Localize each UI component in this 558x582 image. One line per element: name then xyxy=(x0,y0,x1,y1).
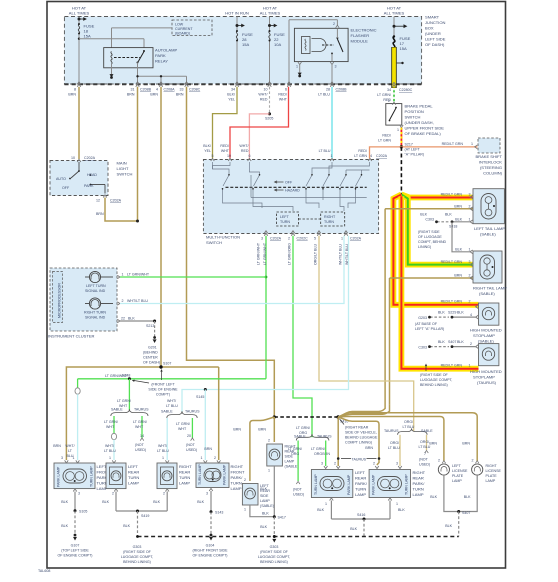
svg-text:AUTO: AUTO xyxy=(56,177,66,181)
svg-text:2: 2 xyxy=(214,456,216,460)
fuse 18 symbol xyxy=(78,24,79,34)
svg-text:BLK: BLK xyxy=(464,495,471,499)
multi-function switch box xyxy=(203,160,378,246)
svg-text:LT BLU: LT BLU xyxy=(318,93,330,97)
svg-text:(NOT: (NOT xyxy=(186,443,196,447)
fuse 22 tap arrow xyxy=(268,24,276,26)
svg-text:PARK: PARK xyxy=(84,184,94,188)
svg-text:RIGHT TURN: RIGHT TURN xyxy=(84,311,106,315)
svg-text:CURRENT: CURRENT xyxy=(175,27,193,31)
svg-text:2: 2 xyxy=(122,299,124,303)
splice S107 xyxy=(159,365,162,368)
svg-text:POSITION: POSITION xyxy=(405,109,424,114)
svg-text:S217: S217 xyxy=(405,143,413,147)
svg-text:PARK/: PARK/ xyxy=(231,475,244,480)
taurus arm green not used xyxy=(141,416,143,438)
sable arm green to connector to cyan to left rear turn lamp xyxy=(113,416,115,434)
svg-text:(AT LEFT: (AT LEFT xyxy=(405,148,421,152)
wire BLK S418 to right tail pin 1 xyxy=(452,222,470,252)
svg-text:3: 3 xyxy=(335,65,337,69)
svg-text:BRN: BRN xyxy=(127,93,135,97)
svg-text:1: 1 xyxy=(268,469,270,473)
svg-text:AUTOLAMP: AUTOLAMP xyxy=(155,48,177,53)
svg-text:LICENSE: LICENSE xyxy=(452,469,468,473)
svg-text:3: 3 xyxy=(78,492,80,496)
svg-text:RED/LT GRN: RED/LT GRN xyxy=(441,364,463,368)
C taurus arm to right rear park/turn pin 3 xyxy=(399,435,401,466)
svg-text:WHT/LT BLU: WHT/LT BLU xyxy=(345,244,349,265)
svg-text:BRN: BRN xyxy=(462,442,470,446)
fuse 22 symbol xyxy=(269,31,270,41)
svg-text:BRN: BRN xyxy=(150,93,158,97)
wire BLK from IC to G201 xyxy=(120,320,155,322)
svg-text:C208A: C208A xyxy=(164,88,176,92)
svg-text:(SABLE): (SABLE) xyxy=(260,504,274,508)
svg-text:BEHIND LINING): BEHIND LINING) xyxy=(420,383,448,387)
svg-text:COMPT): COMPT) xyxy=(156,393,170,397)
svg-text:LT GRN/: LT GRN/ xyxy=(104,420,118,424)
svg-text:STOPLAMP: STOPLAMP xyxy=(473,333,495,338)
wire fuse 17 thick yellow xyxy=(391,47,396,88)
right rear side lamp (sable) xyxy=(267,444,299,469)
low current board (dashed box) xyxy=(172,20,212,36)
MFS internal wiring xyxy=(213,162,370,211)
svg-text:WHT/: WHT/ xyxy=(65,444,74,448)
svg-text:3: 3 xyxy=(469,260,471,264)
svg-text:1: 1 xyxy=(296,65,298,69)
wire RED/LT GRN to high mounted stoplamp sable xyxy=(393,195,478,305)
svg-text:MULTI-FUNCTION: MULTI-FUNCTION xyxy=(206,235,240,240)
svg-text:LT BLU: LT BLU xyxy=(388,446,400,450)
svg-text:LT GRN/: LT GRN/ xyxy=(288,447,302,451)
svg-text:BLK: BLK xyxy=(260,525,267,529)
svg-text:RIGHT: RIGHT xyxy=(324,215,336,219)
svg-text:SIDE OF VEHICLE,: SIDE OF VEHICLE, xyxy=(345,431,377,435)
svg-text:PARK/: PARK/ xyxy=(413,481,426,486)
svg-text:LIGHT: LIGHT xyxy=(117,166,129,171)
svg-text:3: 3 xyxy=(469,193,471,197)
svg-text:3: 3 xyxy=(206,492,208,496)
svg-text:USED): USED) xyxy=(419,463,430,467)
high mounted stoplamp (sable) xyxy=(470,303,502,344)
svg-text:(TAURUS): (TAURUS) xyxy=(477,380,497,385)
svg-text:22: 22 xyxy=(121,317,125,321)
svg-text:(NOT: (NOT xyxy=(135,443,145,447)
svg-text:15A: 15A xyxy=(242,42,250,47)
svg-text:BLK: BLK xyxy=(262,512,269,516)
splice S410 xyxy=(336,415,340,419)
svg-text:BLK: BLK xyxy=(128,317,135,321)
svg-text:BRN: BRN xyxy=(68,93,76,97)
left turn dashed box xyxy=(277,212,299,226)
svg-text:1: 1 xyxy=(244,508,246,512)
wire BRN to right license lamp xyxy=(338,413,477,461)
svg-text:BRN: BRN xyxy=(176,93,184,97)
svg-text:ORG/LT BLU: ORG/LT BLU xyxy=(314,244,318,265)
wire RED/LT GRN to left tail lamp pin 3 xyxy=(401,195,472,198)
svg-text:LAMP: LAMP xyxy=(260,499,270,503)
BRN bus right branch down to right front lamp xyxy=(218,367,220,460)
svg-text:(AT BASE OF: (AT BASE OF xyxy=(415,322,438,326)
svg-text:C303: C303 xyxy=(425,218,434,222)
svg-text:(NOT: (NOT xyxy=(419,458,429,462)
svg-text:RIGHT: RIGHT xyxy=(413,470,426,475)
svg-text:LAMP: LAMP xyxy=(179,481,190,486)
svg-text:MICROPROCESSOR: MICROPROCESSOR xyxy=(58,283,62,318)
svg-text:(UNDER: (UNDER xyxy=(425,31,441,36)
svg-text:SABLE: SABLE xyxy=(161,410,173,414)
svg-text:3: 3 xyxy=(61,456,63,460)
svg-text:2: 2 xyxy=(373,462,375,466)
svg-text:OF DASH): OF DASH) xyxy=(425,42,445,47)
svg-text:BLK: BLK xyxy=(61,500,68,504)
svg-text:ALL TIMES: ALL TIMES xyxy=(260,11,281,16)
svg-text:S407: S407 xyxy=(462,511,470,515)
svg-text:HAZARD: HAZARD xyxy=(285,189,300,193)
svg-text:WHT/: WHT/ xyxy=(258,93,267,97)
svg-text:(RIGHT FRONT SIDE: (RIGHT FRONT SIDE xyxy=(192,549,228,553)
svg-text:33: 33 xyxy=(180,88,184,92)
green LT GRN/WHT bus xyxy=(78,378,266,380)
svg-text:LAMP: LAMP xyxy=(486,479,496,483)
svg-text:1: 1 xyxy=(325,502,327,506)
svg-text:2: 2 xyxy=(469,274,471,278)
svg-text:BLK: BLK xyxy=(438,311,445,315)
svg-text:MODULE: MODULE xyxy=(351,39,369,44)
svg-text:COMPT, BEHIND: COMPT, BEHIND xyxy=(418,240,447,244)
svg-text:BRAKE SHIFT: BRAKE SHIFT xyxy=(475,154,502,159)
svg-text:YEL: YEL xyxy=(204,149,211,153)
svg-text:C202A: C202A xyxy=(84,156,96,160)
node fuse18 to relay xyxy=(78,38,80,40)
svg-text:RED/: RED/ xyxy=(278,93,287,97)
svg-text:BLK: BLK xyxy=(455,218,462,222)
svg-text:BRN: BRN xyxy=(454,205,462,209)
wire B LT GRN/ORG: MFS pin 2 down xyxy=(293,236,312,437)
wire BRN to left license lamp xyxy=(338,417,444,462)
svg-text:BEHIND LUGGAGE: BEHIND LUGGAGE xyxy=(345,436,378,440)
left rear turn ground xyxy=(115,492,117,512)
node side lamp tap xyxy=(273,415,276,418)
svg-text:LEFT: LEFT xyxy=(280,215,290,219)
svg-text:SABLE: SABLE xyxy=(294,435,306,439)
svg-text:BRN: BRN xyxy=(204,447,212,451)
wire BRN to right tail lamp pin 2 xyxy=(390,277,474,279)
svg-text:(STEERING: (STEERING xyxy=(480,165,502,170)
svg-text:2: 2 xyxy=(472,459,474,463)
svg-text:TURN: TURN xyxy=(231,481,242,486)
right tail lamp pin chevrons xyxy=(470,250,473,280)
svg-text:BLK: BLK xyxy=(420,213,427,217)
svg-text:WHT/: WHT/ xyxy=(105,444,114,448)
flasher coil box xyxy=(302,37,311,54)
svg-text:2: 2 xyxy=(469,300,471,304)
svg-text:C202C: C202C xyxy=(297,237,309,241)
BRN park bus horizontal xyxy=(66,367,218,460)
svg-text:BRN: BRN xyxy=(454,274,462,278)
svg-text:USED): USED) xyxy=(293,493,304,497)
svg-text:G104: G104 xyxy=(206,544,215,548)
svg-text:LEFT: LEFT xyxy=(452,464,462,468)
autolamp park relay xyxy=(104,48,153,68)
svg-text:1: 1 xyxy=(122,273,124,277)
svg-text:(RIGHT SIDE OF: (RIGHT SIDE OF xyxy=(260,550,288,554)
svg-text:WHT: WHT xyxy=(279,98,288,102)
svg-text:PARK LAMP: PARK LAMP xyxy=(347,474,351,495)
fuse 17 column xyxy=(393,17,395,37)
svg-text:UPPER FRONT SIDE: UPPER FRONT SIDE xyxy=(405,126,445,131)
svg-text:ELECTRONIC: ELECTRONIC xyxy=(351,28,377,33)
flasher switch blade xyxy=(337,39,343,52)
ground G303 (rear) xyxy=(273,535,276,538)
svg-text:SWITCH: SWITCH xyxy=(117,172,133,177)
right turn signal indicator xyxy=(84,298,113,320)
wire BRN S410 to right rear park lamp pin 2 xyxy=(338,417,379,465)
svg-text:LEFT "A" PILLAR): LEFT "A" PILLAR) xyxy=(415,327,444,331)
svg-text:BRN: BRN xyxy=(96,212,104,216)
B sable arm not used xyxy=(297,441,299,482)
fuse 18 column wire xyxy=(78,17,80,85)
left front park/turn lamp xyxy=(54,463,111,491)
svg-text:BEHIND LINING): BEHIND LINING) xyxy=(260,560,288,564)
svg-text:2: 2 xyxy=(333,22,335,26)
IC pin chevrons xyxy=(117,275,120,323)
svg-text:(RIGHT REAR: (RIGHT REAR xyxy=(345,426,369,430)
svg-text:1: 1 xyxy=(201,456,203,460)
svg-text:LT GRN/WHT: LT GRN/WHT xyxy=(257,242,261,265)
svg-text:BEHIND LINING): BEHIND LINING) xyxy=(123,560,151,564)
relay switch blade xyxy=(138,52,144,63)
svg-text:LUGGAGE COMPT,: LUGGAGE COMPT, xyxy=(258,555,291,559)
svg-text:TAL608: TAL608 xyxy=(38,569,50,573)
instrument cluster box xyxy=(48,268,117,339)
svg-text:LT BLU: LT BLU xyxy=(403,425,415,429)
svg-text:10: 10 xyxy=(71,156,75,160)
svg-text:1: 1 xyxy=(469,218,471,222)
svg-text:1: 1 xyxy=(162,456,164,460)
svg-text:5: 5 xyxy=(212,154,214,158)
svg-text:BOX: BOX xyxy=(425,26,434,31)
svg-text:BLK: BLK xyxy=(123,524,130,528)
fuse 17 symbol xyxy=(393,37,395,48)
svg-text:S418: S418 xyxy=(449,225,457,229)
left license plate lamp xyxy=(438,464,468,483)
wire WHT/RED dashed to S205 xyxy=(269,87,271,114)
svg-text:(NOT: (NOT xyxy=(293,488,303,492)
svg-text:(SABLE): (SABLE) xyxy=(285,465,299,469)
wire BRN to left tail lamp pin 2 xyxy=(385,208,473,210)
svg-text:1: 1 xyxy=(109,456,111,460)
svg-text:C208B: C208B xyxy=(140,88,152,92)
svg-text:12: 12 xyxy=(96,199,100,203)
svg-text:4: 4 xyxy=(470,313,472,317)
svg-text:BLK: BLK xyxy=(197,500,204,504)
relay output to pins 31/4/33 xyxy=(138,63,187,85)
svg-text:WHT/LT BLU: WHT/LT BLU xyxy=(339,244,343,265)
main light switch internals xyxy=(71,162,105,194)
svg-text:BLK: BLK xyxy=(398,508,405,512)
splice S418 xyxy=(451,220,454,223)
main light switch pin 12 xyxy=(103,195,107,198)
svg-text:WHT: WHT xyxy=(178,427,187,431)
svg-text:BLK: BLK xyxy=(350,527,357,531)
svg-text:RED/: RED/ xyxy=(358,149,367,153)
svg-text:OF BRAKE PEDAL): OF BRAKE PEDAL) xyxy=(405,131,442,136)
connector row pin chevrons xyxy=(77,82,396,88)
svg-text:5: 5 xyxy=(314,237,316,241)
svg-text:G201: G201 xyxy=(148,346,157,350)
svg-text:OFF: OFF xyxy=(62,186,70,190)
svg-text:LINING): LINING) xyxy=(418,245,431,249)
SJB connector row (dashed) xyxy=(64,83,421,85)
MFS bottom pin chevrons xyxy=(264,231,348,236)
dashed link between turn boxes xyxy=(299,218,321,220)
svg-text:LEFT SIDE: LEFT SIDE xyxy=(425,37,446,42)
dashed link side lamp node to S410 xyxy=(274,416,338,418)
svg-text:(FRONT LEFT: (FRONT LEFT xyxy=(151,383,175,387)
svg-text:ORG: ORG xyxy=(291,452,299,456)
svg-text:LAMP: LAMP xyxy=(413,492,424,497)
svg-text:RED/: RED/ xyxy=(220,144,229,148)
svg-text:OF ENGINE COMPT): OF ENGINE COMPT) xyxy=(193,554,228,558)
wire relay coil to low current board xyxy=(112,27,173,29)
svg-text:YEL: YEL xyxy=(228,98,235,102)
wire BRN pin4 down to S107 xyxy=(160,87,162,367)
svg-text:LEFT TURN: LEFT TURN xyxy=(86,284,106,288)
svg-text:RIGHT TAIL LAMP: RIGHT TAIL LAMP xyxy=(473,286,507,291)
svg-text:G303: G303 xyxy=(270,545,279,549)
svg-text:LEFT TAIL LAMP: LEFT TAIL LAMP xyxy=(474,226,505,231)
wire green to cyan via connector to left front lamp pin 1 xyxy=(77,379,79,388)
svg-text:(BEHIND: (BEHIND xyxy=(143,351,158,355)
svg-text:2: 2 xyxy=(334,462,336,466)
svg-text:BRN: BRN xyxy=(429,442,437,446)
svg-text:S148: S148 xyxy=(122,374,130,378)
svg-text:WHT/: WHT/ xyxy=(167,399,176,403)
svg-text:(RIGHT SIDE OF: (RIGHT SIDE OF xyxy=(123,550,151,554)
svg-text:LT BLU: LT BLU xyxy=(166,404,178,408)
brake pedal position switch box xyxy=(386,104,445,137)
svg-text:10A: 10A xyxy=(274,42,282,47)
wire BRN S410 to left rear park lamp pin 2 xyxy=(337,417,339,466)
splice S148 xyxy=(128,377,131,380)
flasher timer element xyxy=(312,39,326,52)
svg-text:31: 31 xyxy=(131,88,135,92)
svg-text:1: 1 xyxy=(471,142,473,146)
svg-text:BRN: BRN xyxy=(322,452,330,456)
svg-text:ORG/: ORG/ xyxy=(420,440,429,444)
svg-text:LOW: LOW xyxy=(175,23,184,27)
svg-text:WHT: WHT xyxy=(221,149,230,153)
svg-text:SWITCH: SWITCH xyxy=(405,115,421,120)
svg-text:RED: RED xyxy=(260,98,268,102)
svg-text:HIGH MOUNTED: HIGH MOUNTED xyxy=(470,328,502,333)
svg-text:BLK/: BLK/ xyxy=(203,144,211,148)
svg-text:C208B: C208B xyxy=(336,88,348,92)
svg-text:ORG/: ORG/ xyxy=(390,441,399,445)
svg-text:LT GRN/: LT GRN/ xyxy=(311,447,325,451)
svg-text:TURN: TURN xyxy=(324,220,334,224)
fuse 28 column xyxy=(236,17,238,85)
ground G303 (left label) xyxy=(136,535,139,538)
svg-text:S143: S143 xyxy=(215,511,223,515)
svg-text:PARK LAMP: PARK LAMP xyxy=(372,474,376,495)
svg-text:C202A: C202A xyxy=(110,199,122,203)
svg-text:C2280C: C2280C xyxy=(399,88,413,92)
svg-text:TAURUS: TAURUS xyxy=(134,408,149,412)
svg-text:2: 2 xyxy=(388,99,390,103)
svg-text:PLATE: PLATE xyxy=(452,474,464,478)
right turn dashed box xyxy=(321,212,345,226)
flasher pin 2 loop to pin 6 xyxy=(289,20,337,85)
node stop lamp feed xyxy=(400,193,403,196)
svg-text:LAMP: LAMP xyxy=(452,479,462,483)
svg-text:WHT: WHT xyxy=(135,425,144,429)
svg-text:15A: 15A xyxy=(84,34,92,39)
svg-text:INSTRUMENT CLUSTER: INSTRUMENT CLUSTER xyxy=(48,334,95,339)
wire BRN left tail feed joins S410 xyxy=(338,399,385,417)
svg-text:S416: S416 xyxy=(357,513,365,517)
svg-text:1: 1 xyxy=(397,128,399,132)
svg-text:BLK: BLK xyxy=(153,500,160,504)
svg-text:TURN: TURN xyxy=(280,220,290,224)
svg-text:STOPLAMP: STOPLAMP xyxy=(473,375,495,380)
svg-text:BRN: BRN xyxy=(258,428,266,432)
svg-text:LT GRN/WHT: LT GRN/WHT xyxy=(263,242,267,265)
svg-text:PARK LAMP: PARK LAMP xyxy=(57,466,61,487)
sable arm cyan to right rear turn lamp xyxy=(166,418,168,460)
svg-text:28: 28 xyxy=(326,88,330,92)
dashed wire S217 down to stop feed node xyxy=(400,147,402,195)
svg-text:TURN LAMP: TURN LAMP xyxy=(198,464,202,485)
license lamps ground chain xyxy=(444,475,477,511)
svg-text:USED): USED) xyxy=(135,448,146,452)
svg-text:BLK: BLK xyxy=(457,340,464,344)
svg-text:RED: RED xyxy=(241,149,249,153)
svg-text:BLK: BLK xyxy=(430,495,437,499)
svg-text:OF ENGINE COMPT): OF ENGINE COMPT) xyxy=(58,554,93,558)
svg-text:6: 6 xyxy=(249,154,251,158)
wire RED/LT GRN to high mounted stoplamp taurus xyxy=(401,196,478,369)
svg-text:REAR: REAR xyxy=(413,476,424,481)
svg-text:TURN LAMP: TURN LAMP xyxy=(314,474,318,495)
main light switch pin 10 xyxy=(77,159,81,162)
svg-text:34: 34 xyxy=(231,88,235,92)
svg-text:RED/LT GRN: RED/LT GRN xyxy=(441,300,463,304)
MFS internal off/hazard bar xyxy=(226,186,367,188)
svg-text:REAR: REAR xyxy=(260,489,270,493)
svg-text:RIGHT: RIGHT xyxy=(231,464,244,469)
svg-text:BLK: BLK xyxy=(317,508,324,512)
svg-text:RED/: RED/ xyxy=(382,134,391,138)
svg-text:ORG/: ORG/ xyxy=(404,420,413,424)
flasher dashed link xyxy=(322,44,334,46)
svg-text:TAURUS: TAURUS xyxy=(384,429,399,433)
svg-text:SIGNAL IND: SIGNAL IND xyxy=(85,316,106,320)
svg-text:SWITCH: SWITCH xyxy=(206,240,222,245)
wire A LT GRN/WHT: MFS pin 3 down, left to IC pin 1, down to S148 bus xyxy=(265,236,267,379)
svg-text:S407: S407 xyxy=(448,340,456,344)
svg-text:WHT/: WHT/ xyxy=(158,444,167,448)
svg-text:BLK: BLK xyxy=(457,311,464,315)
svg-text:3: 3 xyxy=(396,462,398,466)
right front park/turn lamp xyxy=(196,463,245,491)
svg-text:PARK: PARK xyxy=(155,53,166,58)
wire BLK/YEL to MFS pin 5 xyxy=(213,87,238,159)
svg-text:2: 2 xyxy=(438,459,440,463)
wire BRN pin33 down and right xyxy=(187,87,275,417)
svg-text:LAMP: LAMP xyxy=(231,486,242,491)
